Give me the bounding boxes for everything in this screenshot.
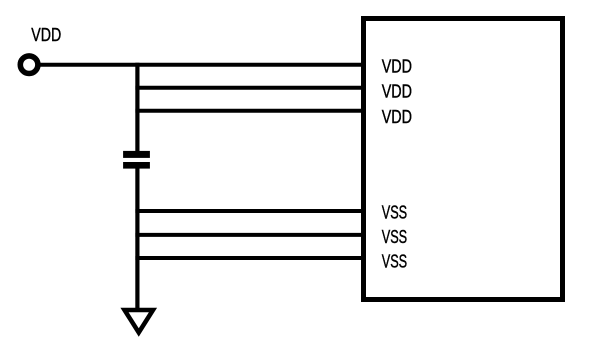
wire VSS pin 2 xyxy=(135,233,365,237)
svg-text:VDD: VDD xyxy=(382,57,412,77)
wire VSS pin 3 xyxy=(135,256,365,260)
ground xyxy=(125,310,154,333)
wire VDD pin 3 xyxy=(135,109,365,113)
svg-text:VDD: VDD xyxy=(31,25,61,45)
capacitor top plate xyxy=(123,151,150,158)
svg-text:VSS: VSS xyxy=(382,251,408,271)
terminal VDD xyxy=(20,56,38,74)
wire VDD main (terminal to IC) xyxy=(40,63,365,67)
wire vertical lower (capacitor to ground) xyxy=(135,164,139,310)
wire vertical upper (junction to capacitor) xyxy=(135,63,139,155)
svg-text:VSS: VSS xyxy=(382,227,408,247)
svg-text:VSS: VSS xyxy=(382,203,408,223)
svg-text:VDD: VDD xyxy=(382,107,412,127)
wire VSS pin 1 xyxy=(135,209,365,213)
IC box xyxy=(364,19,563,300)
svg-text:VDD: VDD xyxy=(382,81,412,101)
capacitor bottom plate xyxy=(123,162,150,169)
wire VDD pin 2 xyxy=(135,86,365,90)
